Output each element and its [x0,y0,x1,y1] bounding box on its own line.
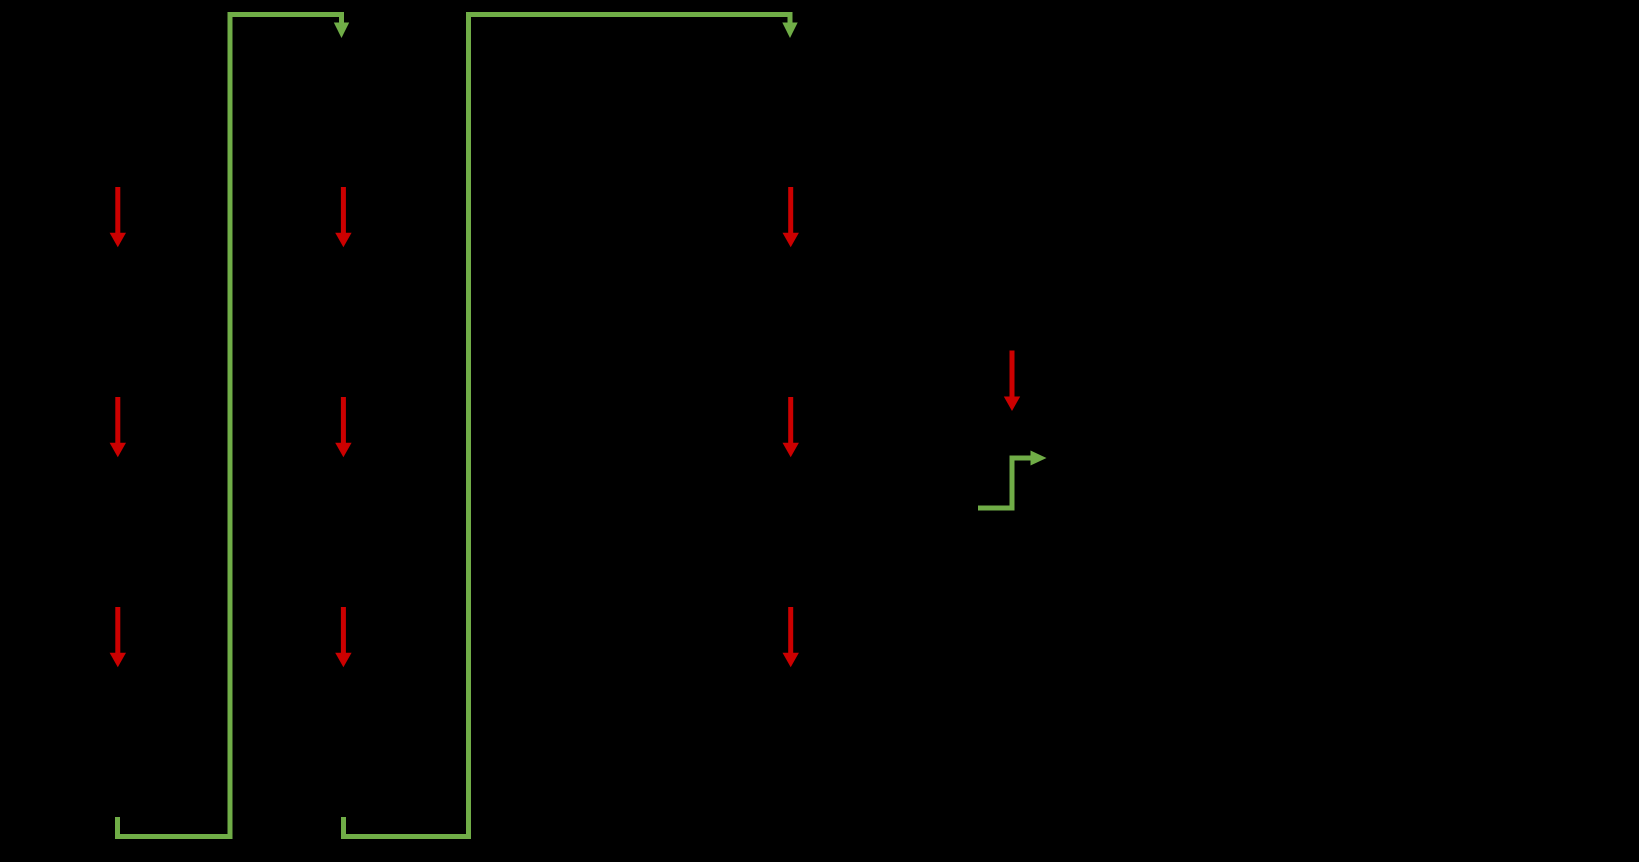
wire: green elbow connector (step to the right, column D) [978,458,1032,508]
wire: green feedback loop 2 (bottom of column B up and over to top of column C) [344,15,791,837]
arrowhead of green elbow connector [1031,451,1047,466]
arrowhead of green feedback loop 1 [334,23,349,39]
red arrow A3 (column A, row 3) [110,607,126,667]
red arrow C2 (column C, row 2) [783,397,799,457]
red arrow B1 (column B, row 1) [335,187,351,247]
red arrow B3 (column B, row 3) [335,607,351,667]
red arrow D1 (column D, single) [1004,351,1020,412]
red arrow C1 (column C, row 1) [783,187,799,247]
red arrow C3 (column C, row 3) [783,607,799,667]
wire: green feedback loop 1 (bottom of column A up and over to top of column B) [118,15,342,837]
red arrow A2 (column A, row 2) [110,397,126,457]
red arrow B2 (column B, row 2) [335,397,351,457]
arrowhead of green feedback loop 2 [782,23,797,39]
red arrow A1 (column A, row 1) [110,187,126,247]
